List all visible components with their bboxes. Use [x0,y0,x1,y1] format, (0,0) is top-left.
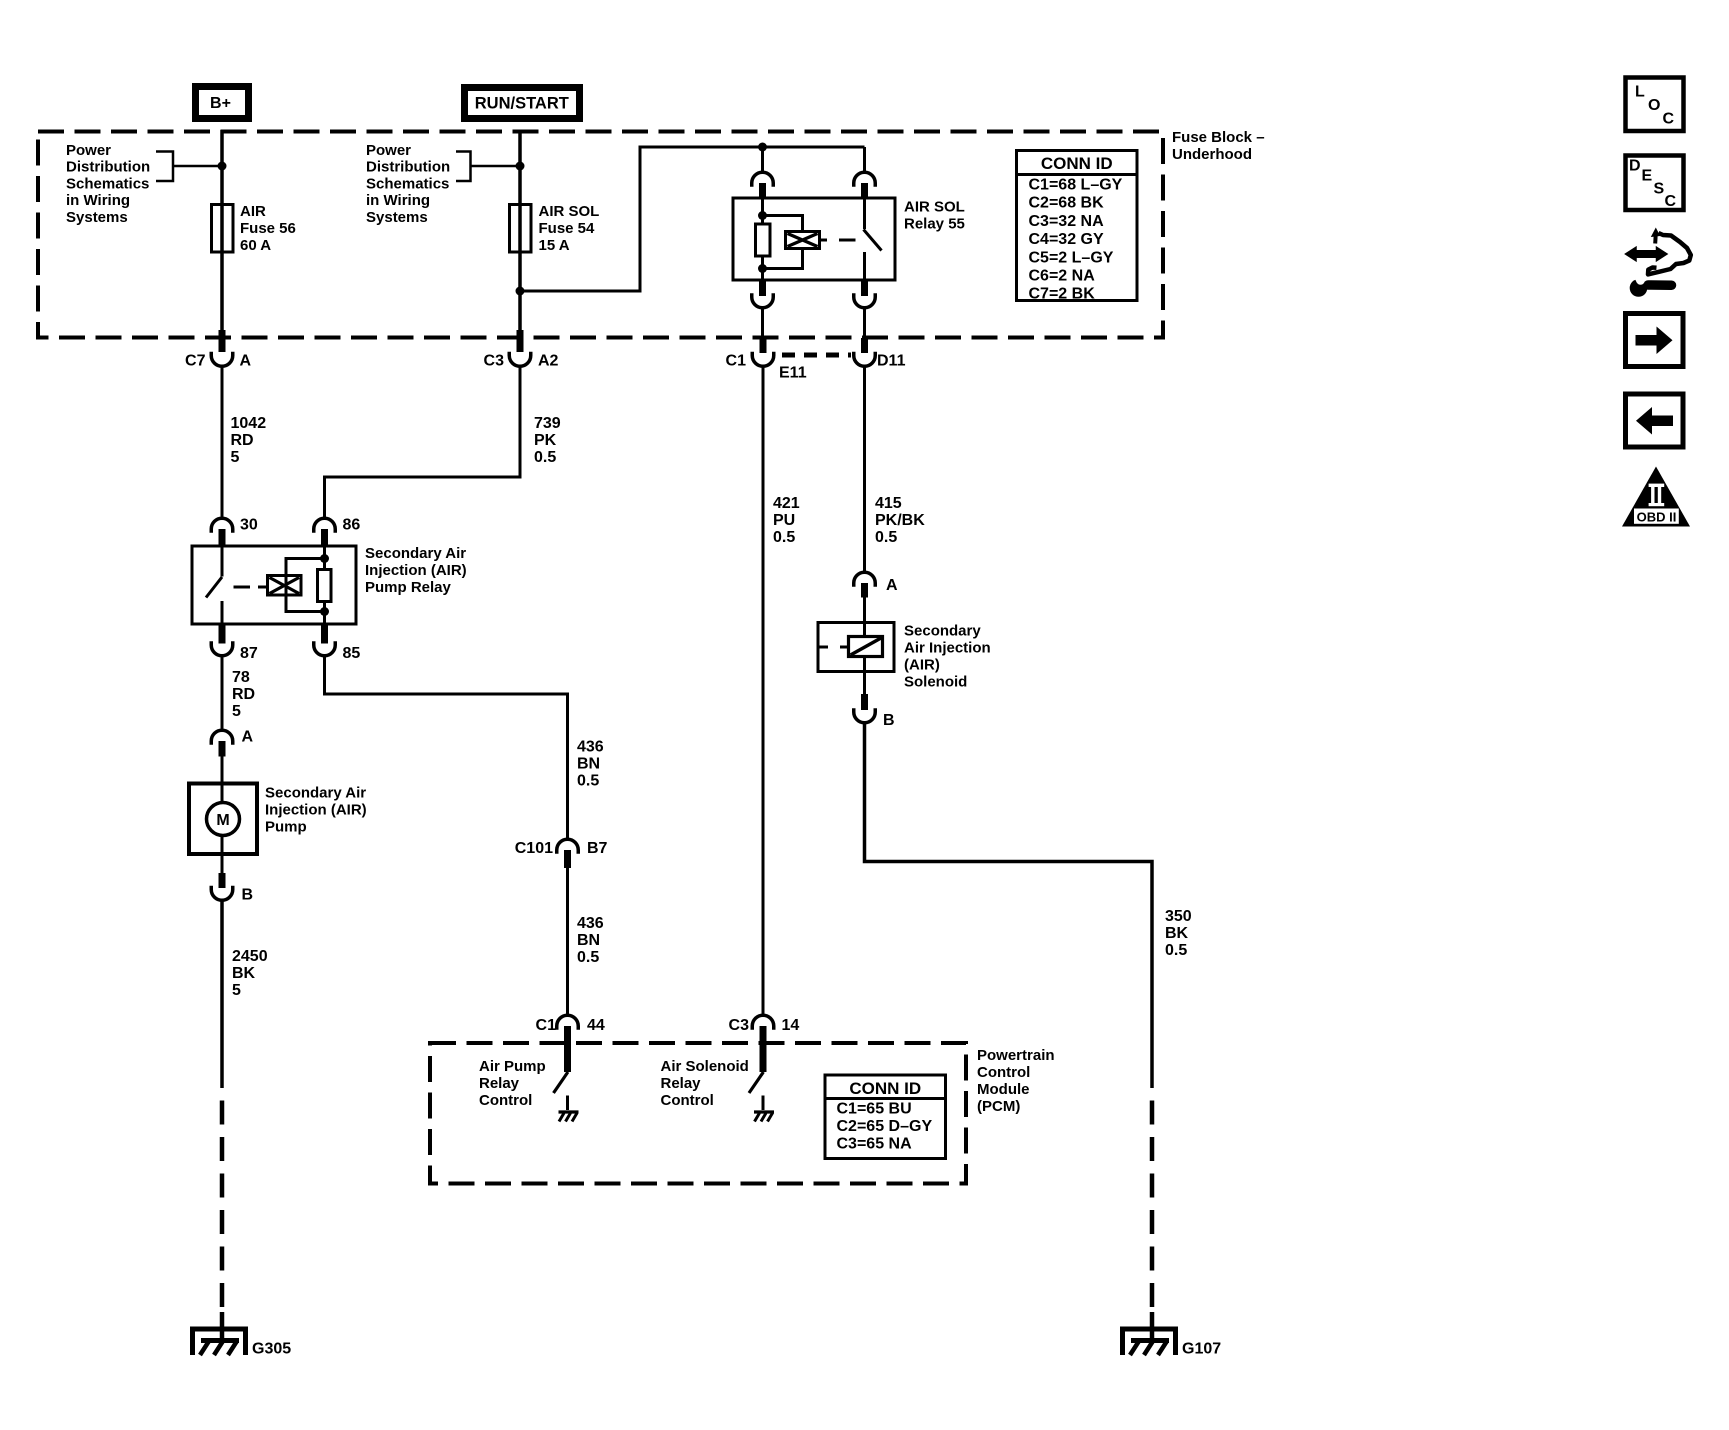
terminal stub PCM C3 14 [760,1026,767,1072]
svg-text:(AIR): (AIR) [904,657,940,674]
svg-text:2450: 2450 [232,948,268,965]
relay 55 coil parallel bracket [763,216,803,269]
label Powertrain Control Module (PCM) [977,1047,1055,1115]
svg-text:Schematics: Schematics [366,175,449,192]
svg-text:M: M [216,812,229,829]
svg-text:Fuse Block –: Fuse Block – [1172,129,1265,146]
wire label 415 PK/BK 0.5 [875,495,925,546]
svg-text:14: 14 [782,1017,800,1034]
connector C1 cavity E11 arc [752,352,774,367]
svg-text:350: 350 [1165,908,1192,925]
pump relay coil element [318,570,332,602]
svg-text:PK/BK: PK/BK [875,512,925,529]
svg-text:Power: Power [66,142,111,159]
svg-text:30: 30 [240,517,258,534]
wire 436 BN 0.5 (C101 to PCM C1 44) [566,868,569,1014]
svg-text:BK: BK [1165,925,1189,942]
terminal B+ [196,87,249,119]
connector arc relay 55 switch pin (top) [854,172,876,187]
svg-text:0.5: 0.5 [875,529,897,546]
component outline [1653,233,1658,244]
wire 78 RD 5 (87 to pump A) [221,657,224,730]
svg-text:C3: C3 [729,1017,750,1034]
svg-text:86: 86 [343,517,361,534]
CONN ID table (fuse block) [1017,151,1138,303]
wire solenoid box to pin B [863,657,866,695]
svg-text:C7: C7 [185,353,206,370]
solenoid Secondary Air Injection (AIR) Solenoid box [818,623,894,672]
svg-text:(PCM): (PCM) [977,1098,1020,1115]
terminal stub relay 55 switch pin [861,183,868,199]
wire pump A stub to pump box [221,756,224,803]
wire 350 BK 0.5 (solenoid B to G107, partly dashed) [865,724,1153,1340]
svg-text:5: 5 [231,449,240,466]
connector arc pump relay pin 86 [314,518,336,533]
label AIR SOL Relay 55 [904,199,965,233]
wire relay 55 switch pin to fuse block edge [863,309,866,340]
svg-text:in Wiring: in Wiring [366,192,430,209]
svg-text:87: 87 [240,645,258,662]
svg-text:RD: RD [232,686,255,703]
svg-text:C: C [1665,193,1677,210]
terminal stub pump relay pin 85 [321,624,328,644]
svg-text:BK: BK [232,965,256,982]
wire 415 PK/BK 0.5 (D11 to solenoid A) [863,367,866,572]
junction node on B+ wire at bracket [218,162,227,171]
icon back arrow box [1626,394,1684,447]
terminal stub pump pin B [219,873,226,888]
terminal stub C101 [564,850,571,868]
svg-text:BN: BN [577,756,600,773]
svg-text:B: B [242,887,254,904]
terminal stub relay 55 switch pin (bottom) [861,280,868,296]
svg-text:B7: B7 [587,840,608,857]
svg-text:Relay 55: Relay 55 [904,216,965,233]
ground (internal, air pump driver) [559,1112,579,1122]
pump relay solenoid valve element (box with X) [268,576,302,596]
svg-text:Air Pump: Air Pump [479,1058,546,1075]
svg-text:C2=65 D–GY: C2=65 D–GY [837,1118,933,1135]
svg-text:Control: Control [977,1064,1030,1081]
terminal stub C3 at fuse block edge [517,330,524,352]
bracket from right note to RUN/START wire [456,152,520,182]
connector arc relay 55 coil pin (bottom) [752,293,774,308]
wire 421 PU 0.5 (C1 E11 to PCM C3 14) [762,367,765,1014]
label Secondary Air Injection (AIR) Pump [265,785,367,836]
svg-text:78: 78 [232,669,250,686]
svg-text:Relay: Relay [479,1075,520,1092]
svg-text:OBD II: OBD II [1637,510,1677,525]
pump relay coil wire and junction dots [323,546,326,624]
terminal stub C7 at fuse block edge [219,330,226,352]
terminal stub pump relay pin 86 [321,529,328,547]
junction node on bus above relay 55 coil [758,143,767,152]
connector arc pump relay pin 87 [211,641,233,656]
motor Secondary Air Injection (AIR) Pump [189,784,257,855]
icon schematic reference (double arrow, outline, wrench) [1626,228,1691,297]
junction node at fuse 54 output [516,287,525,296]
wire pump box to pin B [221,836,224,875]
svg-text:Powertrain: Powertrain [977,1047,1055,1064]
svg-text:Power: Power [366,142,411,159]
value label AIR Fuse 56 60 A [240,203,296,254]
svg-text:PU: PU [773,512,795,529]
connector arc C101 cavity B7 [557,839,579,853]
wire label 1042 RD 5 [231,415,267,466]
svg-text:Solenoid: Solenoid [904,674,967,691]
note Power Distribution Schematics (left) [66,142,150,226]
terminal stub relay 55 coil pin [759,183,766,199]
fuse AIR SOL Fuse 54 [510,205,532,253]
terminal stub D11 at fuse block edge [861,338,868,353]
svg-text:C3: C3 [484,353,505,370]
svg-text:CONN ID: CONN ID [849,1079,921,1098]
ground G107 [1123,1329,1176,1355]
svg-text:5: 5 [232,982,241,999]
svg-text:D: D [1629,158,1641,175]
svg-text:B+: B+ [210,95,231,112]
svg-text:Control: Control [479,1092,532,1109]
svg-text:PK: PK [534,432,557,449]
pump relay switch [206,546,222,624]
solenoid mechanical link (dashed) [820,646,849,649]
svg-text:A: A [242,729,254,746]
svg-text:E11: E11 [779,365,807,382]
wire bus drop to relay 55 coil pin [761,147,764,172]
PCM boundary (dashed) [430,1043,966,1184]
svg-text:Distribution: Distribution [366,159,450,176]
connector D11 arc [854,352,876,367]
svg-text:85: 85 [343,645,361,662]
svg-text:Secondary Air: Secondary Air [265,785,366,802]
wire 436 BN 0.5 (85 to C101) [325,657,568,839]
fuse block underhood boundary (dashed) [38,132,1163,338]
wire RUN/START feed (x=520) from border through fuse to bottom border [518,130,522,332]
connector arc pump pin B [211,886,233,901]
relay 55 solenoid valve element (box with X) [786,232,820,249]
value label AIR SOL Fuse 54 15 A [539,203,600,254]
svg-text:0.5: 0.5 [534,449,556,466]
icon OBD II triangle [1622,467,1690,527]
relay 55 switch [864,198,882,280]
svg-text:Control: Control [661,1092,714,1109]
connector arc PCM C3 cavity 14 [752,1015,774,1030]
svg-text:Fuse 54: Fuse 54 [539,220,596,237]
wire 739 PK 0.5 (C3 to pump relay 86) [325,367,521,518]
svg-text:44: 44 [587,1017,605,1034]
svg-text:C6=2 NA: C6=2 NA [1029,268,1096,285]
svg-text:415: 415 [875,495,902,512]
icon LOC box [1626,78,1684,132]
svg-text:G305: G305 [252,1341,291,1358]
bracket from left note to B+ wire [156,152,222,182]
svg-text:C5=2 L–GY: C5=2 L–GY [1029,249,1114,266]
svg-text:G107: G107 [1182,1341,1221,1358]
terminal stub pump relay pin 30 [219,529,226,547]
relay 55 mechanical link (dashed) [820,239,856,242]
wire label 436 BN 0.5 (lower) [577,915,604,966]
svg-text:A: A [886,577,898,594]
svg-text:0.5: 0.5 [577,949,599,966]
svg-text:1042: 1042 [231,415,267,432]
svg-text:436: 436 [577,915,604,932]
svg-text:C7=2 BK: C7=2 BK [1029,286,1096,303]
svg-text:C4=32 GY: C4=32 GY [1029,231,1104,248]
wire from RUN/START fuse to relay coil bus (junction, right, up, across) [520,147,865,291]
svg-text:AIR: AIR [240,203,266,220]
connector C7 cavity A arc [211,352,233,367]
svg-text:Relay: Relay [661,1075,702,1092]
wire label 2450 BK 5 [232,948,268,999]
svg-text:C1: C1 [726,353,747,370]
double arrow [1626,247,1668,261]
wire label 78 RD 5 [232,669,255,720]
relay Secondary Air Injection (AIR) Pump Relay box [192,546,356,624]
svg-text:0.5: 0.5 [773,529,795,546]
connector arc pump relay pin 30 [211,518,233,533]
svg-text:O: O [1648,97,1660,114]
connector arc solenoid pin B [854,708,876,723]
CONN ID table (PCM) [825,1075,946,1159]
svg-text:AIR SOL: AIR SOL [539,203,600,220]
terminal stub pump relay pin 87 [219,624,226,644]
svg-text:C1=68 L–GY: C1=68 L–GY [1029,177,1123,194]
svg-text:C101: C101 [515,840,553,857]
svg-text:Secondary Air: Secondary Air [365,545,466,562]
connector arc relay 55 switch pin (bottom) [854,293,876,308]
svg-text:Air Solenoid: Air Solenoid [661,1058,749,1075]
svg-text:B: B [883,712,895,729]
solenoid coil element (box with slash) [849,637,883,657]
connector arc solenoid pin A [854,572,876,587]
svg-text:C1: C1 [536,1017,557,1034]
svg-text:Module: Module [977,1081,1030,1098]
icon DESC box [1626,156,1684,211]
wire solenoid A stub to solenoid box [863,597,866,637]
connector arc relay 55 coil pin (top) [752,172,774,187]
terminal stub solenoid pin B [861,694,868,710]
pump relay mechanical link (dashed) [234,586,267,589]
svg-text:in Wiring: in Wiring [66,192,130,209]
svg-text:L: L [1635,84,1645,101]
air solenoid relay control driver switch [749,1072,763,1110]
label Secondary Air Injection (AIR) Solenoid [904,623,991,691]
ground G305 [193,1329,246,1355]
svg-text:0.5: 0.5 [1165,942,1187,959]
svg-text:Secondary: Secondary [904,623,981,640]
connector arc pump pin A [211,730,233,745]
wire label 739 PK 0.5 [534,415,561,466]
terminal stub C1 at fuse block edge [760,338,767,353]
wire 2450 BK 5 (pump B to G305, partly dashed) [220,901,224,1340]
wire label 436 BN 0.5 (upper) [577,739,604,790]
relay 55 coil wire and junction dots [761,198,764,280]
svg-text:Pump Relay: Pump Relay [365,579,452,596]
svg-text:Injection (AIR): Injection (AIR) [365,562,467,579]
svg-text:0.5: 0.5 [577,773,599,790]
icon forward arrow box [1626,314,1684,367]
wire 1042 RD 5 (C7 to pump relay 30) [221,367,224,518]
terminal stub PCM C1 44 [564,1026,571,1072]
connector arc PCM C1 cavity 44 [557,1015,579,1030]
terminal stub relay 55 coil pin (bottom) [759,280,766,296]
terminal stub pump pin A [219,741,226,757]
svg-text:739: 739 [534,415,561,432]
svg-text:Injection (AIR): Injection (AIR) [265,802,367,819]
svg-text:C3=32 NA: C3=32 NA [1029,213,1105,230]
dotted connector tie line C1-D11 [782,353,851,358]
svg-text:D11: D11 [877,353,906,370]
svg-text:Systems: Systems [366,209,428,226]
svg-text:C2=68 BK: C2=68 BK [1029,195,1105,212]
pump relay coil parallel bracket [286,559,325,612]
svg-text:S: S [1654,180,1665,197]
fuse AIR Fuse 56 [212,205,234,253]
svg-text:Systems: Systems [66,209,128,226]
svg-text:Underhood: Underhood [1172,146,1252,163]
svg-text:436: 436 [577,739,604,756]
svg-text:5: 5 [232,703,241,720]
wire label 421 PU 0.5 [773,495,800,546]
svg-text:Fuse 56: Fuse 56 [240,220,296,237]
svg-text:15 A: 15 A [539,237,570,254]
air pump relay control driver switch [554,1072,568,1110]
relay 55 coil element [756,224,771,256]
wire B+ feed (x=222) from border through fuse to bottom border [220,130,224,332]
svg-text:A: A [240,353,252,370]
svg-text:Schematics: Schematics [66,175,149,192]
label Secondary Air Injection (AIR) Pump Relay [365,545,467,596]
wire label 350 BK 0.5 [1165,908,1192,959]
terminal RUN/START [465,88,580,119]
label Air Solenoid Relay Control [661,1058,749,1109]
label Air Pump Relay Control [479,1058,546,1109]
note Power Distribution Schematics (right) [366,142,450,226]
svg-text:Pump: Pump [265,819,307,836]
connector C3 cavity A2 arc [509,352,531,367]
svg-text:BN: BN [577,932,600,949]
svg-text:E: E [1642,168,1653,185]
svg-text:RUN/START: RUN/START [475,95,569,113]
wire bus drop to relay 55 switch pin [863,147,866,172]
relay AIR SOL Relay 55 box [733,198,895,280]
svg-text:421: 421 [773,495,800,512]
svg-text:AIR SOL: AIR SOL [904,199,965,216]
terminal stub solenoid pin A [861,583,868,598]
label Fuse Block - Underhood [1172,129,1265,163]
wire relay 55 coil pin to fuse block edge [761,309,764,340]
svg-text:60 A: 60 A [240,237,271,254]
svg-text:RD: RD [231,432,254,449]
svg-text:C: C [1663,111,1675,128]
connector arc pump relay pin 85 [314,641,336,656]
svg-text:C1=65 BU: C1=65 BU [837,1101,912,1118]
junction node on RUN/START wire at bracket [516,162,525,171]
svg-text:Air Injection: Air Injection [904,640,991,657]
wrench [1648,280,1672,290]
svg-text:C3=65 NA: C3=65 NA [837,1136,913,1153]
ground (internal, air solenoid driver) [754,1112,774,1122]
svg-text:CONN ID: CONN ID [1041,154,1113,173]
svg-text:A2: A2 [538,353,559,370]
svg-text:Distribution: Distribution [66,159,150,176]
